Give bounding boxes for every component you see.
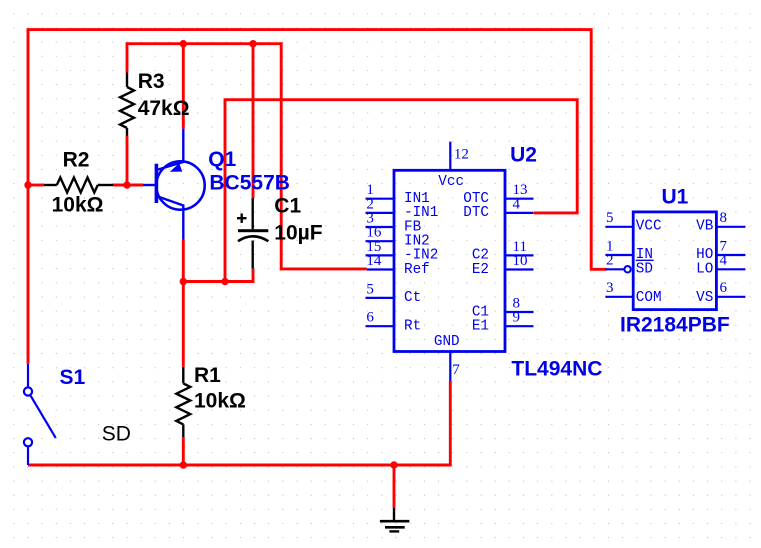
svg-text:SD: SD <box>636 262 653 278</box>
svg-text:SD: SD <box>102 422 131 445</box>
svg-text:U2: U2 <box>510 143 537 166</box>
svg-text:TL494NC: TL494NC <box>511 358 602 381</box>
svg-text:6: 6 <box>366 310 374 326</box>
svg-text:E2: E2 <box>472 262 489 278</box>
svg-text:VS: VS <box>696 290 713 306</box>
svg-text:HO: HO <box>696 247 713 263</box>
svg-text:VB: VB <box>696 219 714 235</box>
svg-text:GND: GND <box>434 334 460 350</box>
svg-text:R3: R3 <box>138 70 165 93</box>
svg-text:DTC: DTC <box>463 205 489 221</box>
svg-text:2: 2 <box>606 253 614 269</box>
svg-text:Vcc: Vcc <box>438 174 464 190</box>
svg-text:BC557B: BC557B <box>209 172 290 195</box>
svg-text:6: 6 <box>720 280 728 296</box>
svg-text:E1: E1 <box>472 319 489 335</box>
svg-text:IR2184PBF: IR2184PBF <box>620 314 730 337</box>
svg-text:47kΩ: 47kΩ <box>138 97 190 120</box>
svg-text:R2: R2 <box>63 149 90 172</box>
svg-text:S1: S1 <box>60 366 86 389</box>
svg-text:5: 5 <box>606 210 614 226</box>
svg-text:8: 8 <box>720 210 728 226</box>
svg-text:VCC: VCC <box>636 219 662 235</box>
svg-text:10kΩ: 10kΩ <box>52 194 104 217</box>
svg-text:4: 4 <box>720 253 728 269</box>
svg-text:Rt: Rt <box>404 319 421 335</box>
svg-text:R1: R1 <box>194 364 221 387</box>
svg-text:14: 14 <box>366 253 382 269</box>
svg-text:COM: COM <box>636 290 662 306</box>
svg-text:4: 4 <box>513 196 521 212</box>
svg-text:10kΩ: 10kΩ <box>194 389 246 412</box>
svg-text:10: 10 <box>513 253 528 269</box>
svg-text:LO: LO <box>696 262 713 278</box>
svg-text:5: 5 <box>366 281 374 297</box>
svg-text:Q1: Q1 <box>208 148 236 171</box>
svg-text:Ref: Ref <box>404 262 430 278</box>
svg-text:3: 3 <box>606 280 614 296</box>
svg-text:7: 7 <box>452 362 460 378</box>
svg-text:IN: IN <box>636 247 653 263</box>
svg-text:Ct: Ct <box>404 290 421 306</box>
svg-text:10µF: 10µF <box>274 222 322 245</box>
svg-text:9: 9 <box>513 310 521 326</box>
svg-text:12: 12 <box>454 147 469 163</box>
svg-text:C1: C1 <box>274 195 301 218</box>
svg-text:U1: U1 <box>662 185 689 208</box>
